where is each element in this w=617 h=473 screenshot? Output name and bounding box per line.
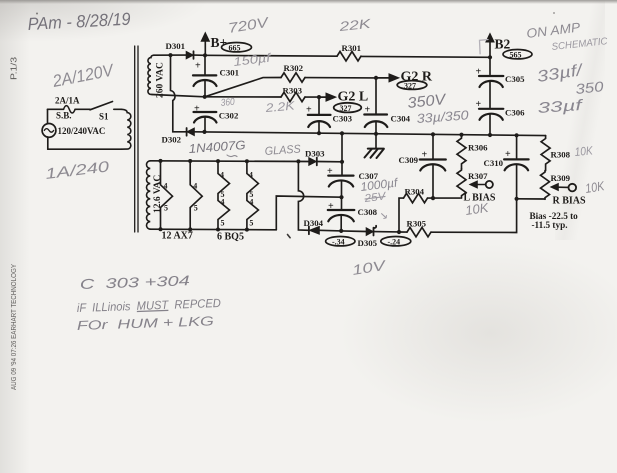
svg-text:SCHEMATIC: SCHEMATIC (551, 36, 609, 53)
wire D304 branch with hop (298, 161, 308, 230)
wire winding bottom to node (152, 95, 205, 97)
transformer 12.6VAC winding (147, 161, 151, 229)
svg-text:C303: C303 (333, 113, 353, 123)
svg-text:120/240VAC: 120/240VAC (58, 126, 106, 136)
capacitor C309 (432, 134, 434, 158)
pencil scribble under 1N4007G (227, 155, 237, 157)
diode D302 (186, 128, 188, 136)
svg-text:P.1/3: P.1/3 (10, 56, 19, 80)
svg-text:PAm - 8/28/19: PAm - 8/28/19 (27, 9, 131, 34)
svg-text:4: 4 (164, 182, 168, 191)
heater 6BQ5 #1 (216, 159, 220, 163)
svg-text:4: 4 (221, 198, 225, 207)
svg-text:33µf: 33µf (537, 97, 585, 117)
resistor R304 (404, 193, 428, 202)
svg-text:R306: R306 (468, 143, 488, 153)
svg-text:6 BQ5: 6 BQ5 (217, 231, 244, 242)
B+ arrow (204, 40, 206, 55)
wire R304 to R307 (428, 197, 461, 199)
diode D301 (186, 51, 193, 58)
svg-text:C310: C310 (484, 158, 504, 168)
wire R309 bottom to C310 (517, 198, 545, 200)
paper top edge shadow (0, 0, 617, 4)
paper speck 1 (288, 235, 291, 238)
pencil bracket near B2 (480, 40, 489, 54)
wire R305 to C310 stem (431, 199, 517, 233)
svg-text:R303: R303 (283, 86, 303, 96)
svg-text:-.24: -.24 (388, 238, 401, 247)
wire AC loop left (47, 109, 49, 123)
ground symbol (375, 134, 377, 149)
svg-text:iF ILLinois MUST REPCED: iF ILLinois MUST REPCED (77, 296, 222, 315)
node D304 branch top (296, 159, 300, 163)
svg-text:2.2K: 2.2K (264, 98, 296, 115)
svg-text:33µ/350: 33µ/350 (416, 107, 470, 126)
svg-text:5: 5 (249, 219, 253, 228)
svg-text:-11.5 typ.: -11.5 typ. (532, 220, 568, 230)
svg-text:360: 360 (220, 97, 235, 109)
wire winding top to D301 (154, 54, 186, 56)
svg-text:5: 5 (194, 204, 198, 213)
resistor R302 (281, 73, 305, 82)
svg-text:R309: R309 (551, 173, 571, 183)
svg-text:5: 5 (221, 219, 225, 228)
svg-text:10K: 10K (574, 143, 594, 159)
svg-text:D305: D305 (358, 238, 378, 248)
svg-text:ON AMP: ON AMP (526, 19, 582, 41)
svg-text:S.B.: S.B. (56, 111, 72, 121)
capacitor C301 (204, 55, 206, 74)
heater 12AX7 #2 (188, 159, 192, 163)
diode D305 (341, 230, 366, 233)
heater 12AX7 #1 (159, 159, 163, 163)
svg-text:4: 4 (249, 171, 253, 180)
svg-text:B2: B2 (495, 37, 511, 52)
svg-text:C304: C304 (391, 114, 411, 124)
capacitor C310 (516, 135, 518, 158)
capacitor C305 (489, 57, 491, 74)
svg-text:D303: D303 (305, 148, 325, 158)
svg-text:4: 4 (193, 182, 197, 191)
svg-text:GLASS: GLASS (264, 143, 301, 158)
svg-text:R BIAS: R BIAS (553, 196, 587, 207)
AC source circle (42, 123, 56, 137)
wire AC loop bottom (48, 148, 122, 150)
svg-text:C306: C306 (505, 107, 525, 117)
wire R301 to B2 (361, 55, 490, 58)
svg-text:10K: 10K (584, 178, 606, 196)
svg-text:↘: ↘ (377, 210, 388, 223)
node B+ (203, 53, 207, 57)
resistor R306 (459, 133, 463, 137)
resistor R301 (337, 52, 361, 61)
svg-text:C302: C302 (219, 111, 239, 121)
ground bus wire (205, 132, 546, 136)
svg-text:S1: S1 (99, 112, 109, 122)
node G2L (317, 95, 321, 99)
capacitor C304 (375, 78, 377, 114)
svg-text:D301: D301 (166, 41, 186, 51)
resistor R303 (281, 92, 305, 101)
svg-text:AUG 09 '94 07:26 EARHART TECHN: AUG 09 '94 07:26 EARHART TECHNOLOGY (9, 264, 18, 390)
svg-text:D302: D302 (162, 135, 182, 145)
svg-text:D304: D304 (304, 218, 324, 228)
svg-text:C308: C308 (358, 207, 378, 217)
resistor R308 (541, 136, 550, 171)
wire R302 to G2R node (305, 77, 376, 79)
svg-text:C309: C309 (399, 155, 419, 165)
paper left edge wash (0, 0, 30, 473)
transformer core (134, 46, 136, 232)
svg-text:1N4007G: 1N4007G (188, 138, 246, 156)
svg-text:4: 4 (220, 171, 224, 180)
potentiometer R309 (541, 171, 550, 200)
paper right crease (555, 0, 605, 240)
svg-text:-.34: -.34 (332, 238, 345, 247)
diode D303 (309, 158, 317, 166)
svg-text:R307: R307 (468, 171, 488, 181)
transformer primary coil (122, 109, 131, 149)
svg-text:1A/240: 1A/240 (44, 158, 110, 183)
heater top rail (150, 160, 309, 163)
svg-text:327: 327 (340, 104, 352, 113)
paper bottom right wrinkle (300, 240, 617, 473)
wire D302 branch with hop (171, 55, 187, 132)
B2 arrow (489, 42, 491, 58)
svg-text:22K: 22K (337, 16, 372, 34)
svg-text:327: 327 (404, 82, 416, 91)
svg-text:R301: R301 (342, 43, 362, 53)
node C301/C302 (203, 95, 207, 99)
svg-text:350: 350 (575, 78, 605, 97)
svg-text:B+: B+ (211, 35, 228, 50)
svg-text:C305: C305 (505, 74, 525, 84)
heater 6BQ5 #2 (245, 159, 249, 163)
svg-text:C301: C301 (220, 68, 240, 78)
resistor R305 (399, 231, 407, 233)
capacitor C303 (318, 97, 320, 114)
circled -.24 (381, 237, 411, 246)
svg-text:260 VAC: 260 VAC (156, 62, 166, 98)
svg-text:+: + (195, 61, 201, 72)
svg-text:12 AX7: 12 AX7 (162, 231, 193, 242)
circled 565 (503, 50, 532, 59)
svg-text:R302: R302 (284, 63, 304, 73)
switch S1 (90, 102, 113, 110)
svg-text:10K: 10K (464, 200, 490, 218)
circled 327 right (397, 81, 427, 90)
wire B+ top rail (205, 54, 337, 57)
wire node to R303 (205, 96, 281, 98)
fuse S.B. (48, 108, 64, 110)
paper speck 3 (36, 13, 38, 15)
paper speck 2 (553, 12, 555, 14)
svg-text:720V: 720V (227, 14, 271, 36)
circled 327 left (334, 103, 362, 113)
circled -.34 (326, 237, 355, 246)
wire R304 corner (399, 198, 404, 232)
svg-text:150µf: 150µf (233, 50, 273, 69)
wire diagonal to R302 (205, 78, 281, 97)
capacitor C307 stem from bus (341, 133, 343, 174)
svg-text:R308: R308 (551, 150, 571, 160)
circled 665 (222, 43, 252, 52)
arrow G2 R (376, 77, 390, 79)
node B2 (488, 55, 492, 59)
svg-text:R304: R304 (405, 186, 425, 196)
node G2R (374, 76, 378, 80)
svg-text:2A/120V: 2A/120V (50, 60, 116, 91)
wire R303 to G2L node (305, 96, 319, 98)
node D302 branch (169, 53, 173, 57)
node R304/R305 corner (397, 230, 401, 234)
potentiometer R307 (457, 169, 466, 198)
svg-text:2A/1A: 2A/1A (55, 96, 80, 106)
paper top-left corner wash (0, 0, 260, 60)
transformer 260VAC secondary coil (148, 55, 154, 94)
svg-text:4: 4 (249, 198, 253, 207)
wire heater bottom to cap midpoint (276, 196, 341, 230)
heater bottom rail (150, 228, 276, 231)
diode D304 (308, 226, 310, 234)
svg-text:FOr HUM + LKG: FOr HUM + LKG (77, 313, 214, 333)
svg-text:5: 5 (164, 204, 168, 213)
svg-text:10V: 10V (351, 257, 388, 278)
svg-text:25V: 25V (363, 190, 388, 205)
svg-text:R305: R305 (407, 219, 427, 229)
svg-text:C 303 +304: C 303 +304 (80, 272, 191, 292)
arrow G2 L (319, 96, 327, 98)
svg-text:565: 565 (510, 51, 522, 60)
svg-text:665: 665 (229, 44, 241, 53)
